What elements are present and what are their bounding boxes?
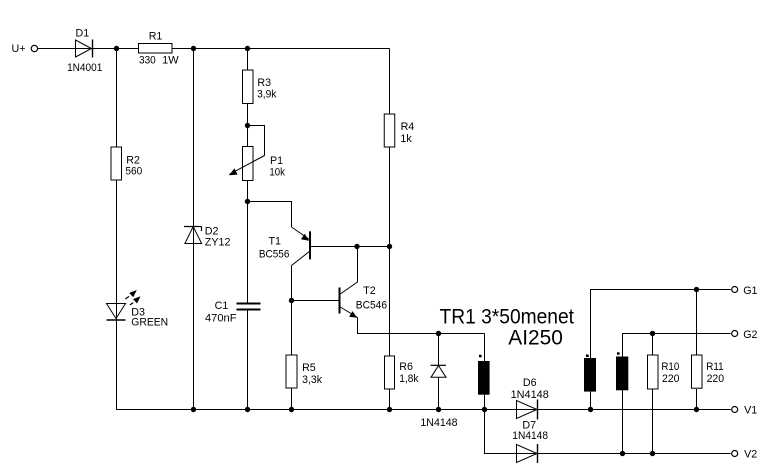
terminal G1 (732, 285, 758, 297)
svg-text:R5: R5 (302, 362, 316, 374)
svg-text:3,9k: 3,9k (257, 88, 277, 100)
svg-text:1k: 1k (400, 133, 412, 145)
wire secondary 2 top to G2 row (623, 334, 731, 357)
svg-text:1N4148: 1N4148 (420, 417, 457, 429)
node junction at R3 column top (245, 46, 250, 51)
svg-text:220: 220 (707, 373, 725, 385)
wire primary top (484, 334, 486, 362)
svg-text:BC546: BC546 (356, 300, 387, 312)
wire diode D5 column top (438, 334, 440, 366)
diode D1 1N4001 (67, 28, 102, 74)
svg-text:1N4001: 1N4001 (67, 62, 102, 74)
wire R4 column (389, 49, 391, 115)
transformer secondary winding 1 (584, 355, 596, 392)
wire secondary 1 top to G1 row (591, 290, 731, 359)
svg-text:GREEN: GREEN (131, 317, 168, 329)
resistor R5 3,3k (286, 355, 323, 388)
wire R5 column (291, 301, 293, 356)
svg-text:560: 560 (125, 165, 142, 177)
svg-text:TR1 3*50menet: TR1 3*50menet (440, 305, 575, 328)
diode D5 1N4148 (420, 365, 457, 429)
wire R10 bottom to V2 (652, 389, 654, 454)
svg-text:1,8k: 1,8k (399, 373, 419, 385)
node junction secondary 2 bottom V2 (620, 451, 625, 456)
resistor R1 330 1W (139, 30, 180, 66)
node junction diode bottom rail (436, 407, 441, 412)
svg-text:T1: T1 (269, 236, 282, 248)
svg-text:1N4148: 1N4148 (511, 389, 549, 401)
wire P1 junction to T1 emitter (248, 202, 292, 228)
wire D3 to bottom rail (116, 320, 118, 410)
svg-text:V2: V2 (744, 449, 757, 461)
wire R3 to P1 (247, 104, 249, 147)
transistor T1 BC556 (259, 227, 310, 266)
node junction at D2 column top (191, 46, 196, 51)
node junction R10 bottom V2 (650, 451, 655, 456)
wire junction down to R2 (116, 49, 118, 148)
svg-text:V1: V1 (744, 405, 757, 417)
svg-text:R6: R6 (399, 361, 413, 373)
wire C1 to bottom rail (247, 310, 249, 410)
svg-text:ZY12: ZY12 (205, 237, 231, 249)
svg-text:R1: R1 (149, 30, 163, 42)
diode D7 1N4148 (512, 420, 548, 463)
terminal V1 (732, 405, 758, 417)
potentiometer P1 10k (229, 147, 285, 181)
node junction at R2 top (114, 46, 119, 51)
wire R5 to bottom rail (291, 388, 293, 410)
wire D1 to R1 (93, 48, 139, 50)
wire R1 to R4 column (top rail) (172, 48, 390, 50)
capacitor C1 470nF (205, 300, 261, 324)
wire R11 bottom to V1 (696, 389, 698, 410)
node junction C1 bottom rail (245, 407, 250, 412)
svg-text:T2: T2 (363, 285, 376, 297)
svg-text:220: 220 (662, 373, 680, 385)
wire T2 base (292, 300, 340, 302)
svg-text:330: 330 (139, 54, 156, 66)
node junction R6 bottom rail (387, 407, 392, 412)
svg-text:1N4148: 1N4148 (512, 430, 548, 442)
wire R6 to bottom rail (389, 389, 391, 410)
node junction primary bottom rail (482, 407, 487, 412)
node junction T2 collector top (354, 244, 359, 249)
svg-text:3,3k: 3,3k (302, 374, 323, 386)
bottom rail V1 wire (117, 409, 731, 411)
node junction R11 top G1 row (694, 287, 699, 292)
diode D6 1N4148 (511, 377, 549, 419)
node junction T2 base (289, 298, 294, 303)
resistor R10 220 (648, 355, 680, 389)
node junction R10 top G2 row (650, 331, 655, 336)
wire P1 wiper loop (248, 126, 265, 156)
node junction R4 bottom (387, 244, 392, 249)
wire secondary 2 bottom to V2 (622, 390, 624, 453)
terminal V2 (732, 449, 758, 461)
resistor R3 3,9k (243, 70, 278, 104)
svg-text:G1: G1 (743, 285, 757, 297)
wire T2 collector up to base row (357, 247, 359, 283)
svg-text:P1: P1 (270, 155, 283, 167)
LED D3 GREEN (107, 290, 169, 329)
node junction R11 bottom V1 (694, 407, 699, 412)
wire R4 to R6 (389, 147, 391, 356)
wire secondary 1 bottom to V1 (590, 392, 592, 410)
svg-text:10k: 10k (269, 166, 285, 178)
svg-text:R10: R10 (661, 361, 679, 373)
resistor R4 1k (384, 114, 414, 147)
svg-text:R11: R11 (706, 361, 723, 373)
svg-text:1W: 1W (162, 54, 179, 66)
svg-text:D6: D6 (523, 377, 537, 389)
node junction at D2 bottom rail (191, 407, 196, 412)
svg-text:R3: R3 (257, 77, 271, 89)
node junction R5 bottom rail (289, 407, 294, 412)
wire R3 column top (247, 49, 249, 71)
wire R10 top (652, 334, 654, 356)
transistor T2 BC546 (340, 282, 388, 318)
node junction P1 bottom (245, 199, 250, 204)
wire D2 column (193, 49, 195, 410)
zener diode D2 ZY12 (184, 226, 230, 249)
terminal G2 (732, 329, 758, 341)
svg-text:R4: R4 (401, 121, 415, 133)
wire U+ to D1 (38, 48, 76, 50)
resistor R2 560 (111, 147, 142, 180)
resistor R11 220 (692, 355, 725, 388)
svg-text:G2: G2 (743, 329, 757, 341)
node junction diode column top (436, 331, 441, 336)
wire diode to bottom rail (438, 377, 440, 409)
wire T1 collector down (291, 266, 293, 301)
node junction secondary 1 bottom V1 (588, 407, 593, 412)
wire P1 to C1 column (247, 181, 249, 304)
svg-text:470nF: 470nF (205, 312, 237, 324)
svg-text:AI250: AI250 (508, 327, 563, 350)
transformer TR1 primary winding (478, 355, 490, 395)
svg-text:C1: C1 (215, 300, 229, 312)
resistor R6 1,8k (385, 356, 420, 389)
transformer secondary winding 2 (616, 352, 628, 390)
terminal U+ (12, 43, 38, 55)
wire R11 top (696, 290, 698, 356)
wire T2 emitter down and right to transformer (358, 318, 485, 334)
svg-text:U+: U+ (12, 43, 26, 55)
wire primary bottom (484, 395, 486, 410)
svg-text:D2: D2 (205, 226, 219, 238)
node junction R3-P1 (245, 123, 250, 128)
svg-text:BC556: BC556 (259, 248, 290, 260)
wire T1 base row (310, 246, 390, 248)
wire V2 drop from primary bottom (485, 410, 731, 454)
svg-text:D1: D1 (76, 28, 90, 40)
wire R2 to D3 (116, 180, 118, 320)
